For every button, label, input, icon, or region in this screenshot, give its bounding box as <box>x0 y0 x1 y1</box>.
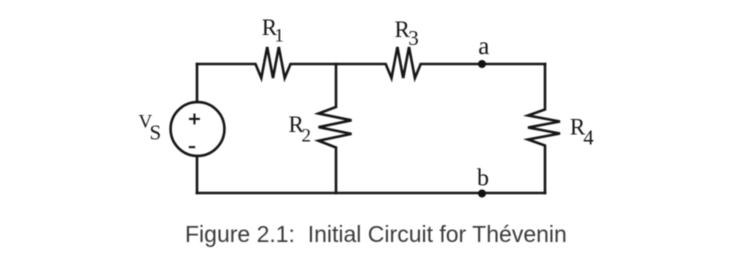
svg-text:3: 3 <box>408 26 419 50</box>
svg-text:4: 4 <box>583 125 594 149</box>
svg-text:1: 1 <box>274 26 284 47</box>
svg-text:2: 2 <box>302 126 312 147</box>
svg-text:a: a <box>478 33 489 60</box>
svg-text:S: S <box>150 121 162 145</box>
svg-text:b: b <box>477 166 489 192</box>
